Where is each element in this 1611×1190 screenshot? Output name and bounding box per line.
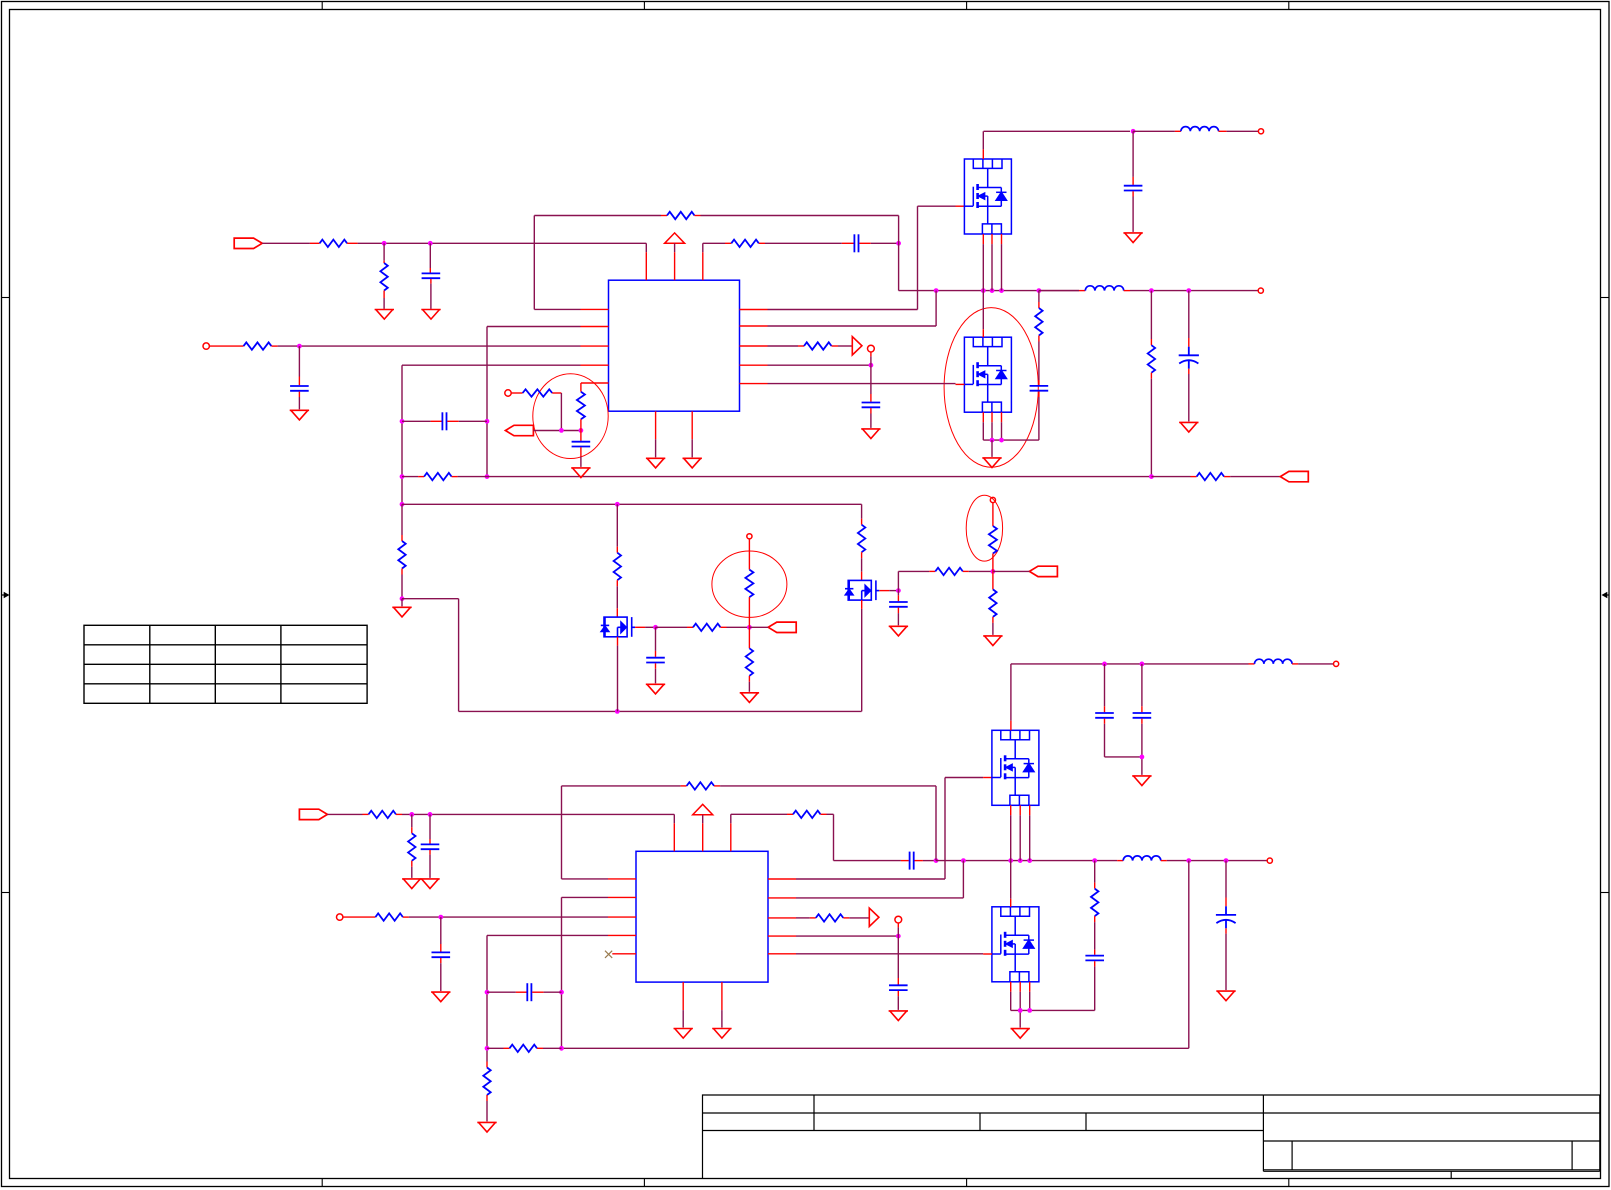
wire VIN1 top net — [984, 130, 1131, 132]
ground — [375, 310, 394, 320]
pin U2 top 1 — [673, 823, 675, 851]
title block right section — [1263, 1095, 1600, 1179]
capacitor C2 (boost) — [842, 242, 854, 244]
pin U1 left 4 comp net — [581, 364, 609, 366]
resistor R4 (feedback top) — [534, 215, 661, 217]
pin U2 bottom 1 — [682, 982, 684, 1010]
resistor R6 (output sense drop) — [1150, 291, 1152, 339]
node boost 2 junction — [934, 858, 939, 863]
port ISETA tag — [768, 622, 796, 632]
pin U2 bottom 2 — [721, 982, 723, 1010]
node VIN2 cap return junction — [1140, 755, 1145, 760]
wire P1 input net — [358, 242, 647, 244]
capacitor C17 (phase2 output polarized) — [1225, 861, 1227, 898]
wire Q6 source — [861, 600, 863, 609]
wire FB sense bus — [487, 476, 1151, 478]
capacitor C9 (circled) — [580, 430, 582, 441]
pin U2 left 1 — [608, 878, 636, 880]
ground — [290, 410, 309, 420]
ground — [571, 468, 590, 478]
power flag VCC2 — [693, 804, 713, 814]
port VOUT2 circle — [1267, 858, 1272, 863]
ground — [421, 310, 440, 320]
capacitor C12 (input to gnd) — [429, 814, 431, 839]
port ISETA circle — [747, 534, 752, 539]
pin U2 right 2 — [768, 897, 796, 899]
wire FB riser left — [533, 216, 535, 310]
resistor R28 (second input series 2) — [343, 916, 376, 918]
resistor R20 (circled current set B) — [992, 503, 994, 526]
capacitor C7 (second input) — [298, 346, 300, 376]
transistor Q3 (small FET A) — [601, 617, 635, 637]
resistor R14 (Q3 drain) — [616, 504, 618, 546]
node VIN1 cap junction — [1131, 129, 1136, 134]
wire Q4 source stubs to SW2 — [1010, 805, 1012, 815]
ground — [991, 440, 993, 457]
port VIN1 circle — [1258, 129, 1263, 134]
resistor R10 (sense series) — [1151, 476, 1190, 478]
capacitor C19 (second input 2) — [440, 917, 442, 944]
wire U1 pin EN drop — [645, 243, 647, 252]
wire Q3 source — [617, 637, 619, 646]
pin U1 bottom 2 — [691, 411, 693, 439]
wire mid bus — [402, 503, 862, 505]
pin U2 top 3 — [730, 823, 732, 851]
node ISET A junction — [747, 625, 752, 630]
pin U1 left 1 — [581, 308, 609, 310]
port RT circle — [505, 390, 511, 396]
capacitor C15 (VIN2 bypass B) — [1141, 664, 1143, 706]
ground — [889, 626, 908, 636]
node comp junctions left — [400, 419, 405, 424]
node P1 input junction B — [428, 241, 433, 246]
wire sense loop — [402, 598, 459, 600]
transistor Q1 (high-side FET phase1) — [964, 159, 1011, 234]
port P1 VIN tag — [234, 238, 262, 248]
ground — [402, 879, 421, 889]
no-connect X — [605, 951, 612, 958]
pin U1 right 1 — [740, 309, 768, 311]
resistor R3 (boost) — [725, 242, 731, 244]
resistor R11 (freq set) — [511, 392, 522, 394]
node comp2 junctions left — [485, 990, 490, 995]
inductor L3 (VIN2 filter) — [1249, 663, 1255, 665]
resistor R23 (input to gnd) — [411, 814, 413, 827]
resistor R7 (to test point) — [768, 345, 799, 347]
node VIN2 cap junctions — [1102, 662, 1107, 667]
resistor R24 (boost 2) — [731, 813, 787, 815]
node P1 input junction A — [382, 241, 387, 246]
port ISNS1 tag — [1280, 471, 1308, 481]
node second input junction — [297, 344, 302, 349]
port EN2 circle — [203, 343, 209, 349]
ground — [646, 684, 665, 694]
test point triangle — [852, 337, 862, 355]
wire second input net 2 — [409, 916, 608, 918]
wire gate1 net — [768, 309, 918, 311]
inductor L1 (VIN1 filter) — [1133, 130, 1175, 132]
node RT junctions — [559, 428, 564, 433]
ground — [420, 879, 439, 889]
pin Q6 gate net — [879, 590, 889, 592]
pin U1 top 2 — [674, 252, 676, 280]
pin U2 right 4 net — [768, 935, 796, 937]
pin U2 left 3 — [608, 916, 636, 918]
pin Q2 gate wire — [740, 383, 768, 385]
inductor L2 (phase1 output) — [1039, 290, 1079, 292]
capacitor C5 (phase1 output polarized) — [1188, 291, 1190, 338]
pin U1 left 3 — [581, 345, 609, 347]
wire RT corner — [560, 393, 562, 430]
pin U1 right 2 — [740, 325, 768, 327]
right border center arrow — [1605, 594, 1609, 596]
transistor Q5 (low-side FET phase2) — [992, 907, 1039, 982]
ground — [1011, 1029, 1030, 1039]
ground — [712, 1029, 731, 1039]
node SW junctions — [934, 288, 939, 293]
pin U1 right 3 — [740, 345, 768, 347]
ground — [740, 693, 759, 703]
node BOOT2 junction — [896, 934, 901, 939]
resistor R1 (input series) — [310, 242, 320, 244]
wire P1 input — [262, 242, 310, 244]
wire Q5 source node — [1010, 982, 1012, 992]
node phase2 output junctions — [1186, 858, 1191, 863]
pin U1 top 3 — [702, 252, 704, 280]
pin U2 right 3 — [768, 917, 796, 919]
ellipse annotation around Q2 — [944, 308, 1038, 468]
ground — [477, 1122, 496, 1132]
node BOOT junction — [869, 363, 874, 368]
resistor R18 (Q6 drain) — [861, 504, 863, 518]
node comp2 junctions right — [559, 990, 564, 995]
ground — [674, 1029, 693, 1039]
resistor R21 (ISET B lower) — [992, 571, 994, 589]
pin Q1 drain — [982, 131, 984, 149]
left border center arrow — [2, 594, 6, 596]
port VIN2 circle — [1334, 661, 1339, 666]
resistor R29 (compensation 2) — [487, 1047, 504, 1049]
wire boost 2 corner — [833, 814, 835, 860]
wire Q5 drain stub — [1010, 861, 1012, 899]
wire P2 input — [327, 813, 362, 815]
ground — [683, 458, 702, 468]
wire VIN2 top net — [1011, 663, 1249, 665]
test point triangle 2 — [869, 908, 879, 926]
ground — [431, 992, 450, 1002]
resistor R2 (input to gnd) — [383, 243, 385, 260]
wire FB2 riser right — [935, 786, 937, 861]
node comp junctions right — [485, 419, 490, 424]
node boost junction — [896, 241, 901, 246]
pin U1 right 4 net — [740, 364, 768, 366]
resistor R30 (comp lower) — [486, 1062, 488, 1068]
op-amp U2 controller IC — [636, 851, 768, 982]
capacitor C13 (boost 2) — [901, 860, 909, 862]
node P2 input junction B — [428, 812, 433, 817]
transistor Q4 (high-side FET phase2) — [992, 730, 1039, 805]
wire SW2 bus — [936, 860, 1117, 862]
node mid bus junction A — [615, 502, 620, 507]
capacitor C3 (VIN1 bypass) — [1132, 131, 1134, 177]
wire SW riser right — [898, 216, 900, 291]
pin U1 top 1 — [645, 252, 647, 280]
node Q3 gate junction — [653, 625, 658, 630]
ellipse annotation around R11 network — [533, 374, 608, 459]
wire FB2 riser left — [561, 786, 563, 879]
pin U2 left 4 comp net — [608, 934, 636, 936]
wire second input net — [278, 345, 581, 347]
resistor R27 (to test point 2) — [796, 917, 810, 919]
wire U1 right pin2 to SW — [935, 291, 937, 326]
node divider junction — [400, 596, 405, 601]
wire gate2 net — [796, 878, 945, 880]
pin Q4 drain — [1010, 721, 1012, 731]
capacitor C6 (boot) — [870, 365, 872, 394]
title block left section — [703, 1095, 1264, 1179]
pin U1 bottom 1 — [655, 411, 657, 439]
capacitor C11 (gate B) — [897, 591, 899, 596]
wire RT return — [533, 430, 581, 432]
ground — [401, 599, 403, 607]
capacitor C4 (SW snubber) — [1038, 380, 1040, 385]
node P2 input junction A — [409, 812, 414, 817]
pin U2 left 2 comp net — [608, 896, 636, 898]
port EN2B circle — [337, 914, 343, 920]
wire P2 input net — [402, 813, 674, 815]
node Q6 gate junction — [896, 588, 901, 593]
wire ISETA tag lead — [749, 626, 768, 628]
port P2 VIN tag — [299, 809, 327, 819]
ground — [1123, 233, 1142, 243]
port ISETB tag — [1029, 566, 1057, 576]
resistor R5 (SW snubber) — [1038, 291, 1040, 302]
resistor R19 (gate B series) — [897, 571, 899, 590]
port BOOT circle — [868, 345, 875, 352]
pin Q4 gate — [983, 777, 992, 779]
resistor R9 (compensation) — [402, 476, 418, 478]
resistor R12 (circled) — [581, 382, 609, 384]
wire U2 right pin2 to SW2 — [962, 861, 964, 898]
capacitor C8 (compensation) — [402, 420, 431, 422]
wire ISETB tag lead — [993, 570, 1030, 572]
wire SW bus — [899, 290, 1079, 292]
op-amp U1 controller IC — [609, 280, 740, 411]
ground — [889, 1011, 908, 1021]
pin Q5 gate wire — [768, 953, 796, 955]
resistor R26 (SW2 snubber) — [1094, 861, 1096, 883]
ellipse annotation around R20 — [966, 495, 1002, 561]
pin U2 right 1 — [768, 878, 796, 880]
resistor R16 (circled current set) — [748, 539, 750, 570]
pin U2 left 5 no-connect — [612, 953, 636, 955]
capacitor C10 (gate A) — [655, 627, 657, 651]
resistor R13 (divider upper) — [401, 504, 403, 535]
ground — [861, 429, 880, 439]
wire Q1 source stubs to SW — [982, 234, 984, 244]
node sense loop junction — [615, 709, 620, 714]
resistor R17 (ISET A lower) — [748, 627, 750, 648]
resistor R25 (feedback top 2) — [562, 785, 681, 787]
transistor Q6 (small FET B) — [845, 580, 879, 600]
ellipse annotation around R16 — [712, 551, 787, 617]
node sense bus junction — [1149, 474, 1154, 479]
capacitor C16 (SW2 snubber) — [1094, 950, 1096, 955]
wire Q2 source node — [982, 412, 984, 422]
wire boost mid — [765, 242, 842, 244]
wire Q4 drain drop — [1010, 664, 1012, 721]
revision table — [84, 625, 367, 703]
node Q2 source junctions — [990, 438, 995, 443]
node ISET B junction — [991, 569, 996, 574]
ground — [1179, 422, 1198, 432]
wire boost branch — [703, 242, 725, 244]
capacitor C20 (compensation 2) — [487, 991, 516, 993]
port RT_RTN tag — [505, 425, 533, 435]
wire FB2 sense drop — [1188, 861, 1190, 1049]
wire boost to SW riser — [871, 242, 899, 244]
ground — [646, 458, 665, 468]
capacitor C14 (VIN2 bypass A) — [1104, 664, 1106, 706]
node second input junction 2 — [438, 915, 443, 920]
ground — [1216, 991, 1235, 1001]
ground — [1132, 776, 1151, 786]
capacitor C1 (input to gnd) — [429, 243, 431, 268]
port VOUT1 circle — [1258, 288, 1263, 293]
inductor L4 (phase2 output) — [1117, 860, 1123, 862]
node phase1 output junctions — [1149, 288, 1154, 293]
pin Q1 gate — [956, 205, 965, 207]
ground — [983, 636, 1002, 646]
resistor R8 (second input series) — [209, 345, 243, 347]
resistor R15 (gate A series) — [656, 626, 688, 628]
pin Q3 gate net — [635, 626, 645, 628]
node SW2 junctions — [961, 858, 966, 863]
port ISETB circle — [990, 497, 995, 502]
wire U2 pin EN drop — [673, 814, 675, 823]
capacitor C18 (boot 2) — [897, 936, 899, 978]
pin U2 top 2 — [702, 823, 704, 851]
resistor R22 (input series) — [363, 813, 369, 815]
node Q5 source junctions — [1018, 1008, 1023, 1013]
wire Q2 drain stub — [982, 291, 984, 330]
power flag VCC — [665, 233, 685, 243]
port BOOT2 circle — [895, 916, 902, 923]
transistor Q2 (low-side FET phase1) — [964, 337, 1011, 412]
pin U1 left 2 comp net — [581, 326, 609, 328]
